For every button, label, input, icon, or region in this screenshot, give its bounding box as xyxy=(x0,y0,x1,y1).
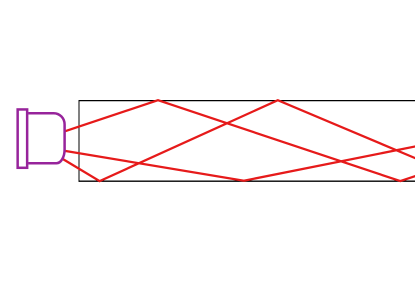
ray C (near bottom bounce then top bounce) xyxy=(63,100,415,181)
ray A (top bounce then far bottom bounce) xyxy=(65,100,415,181)
light guide bottom wall xyxy=(79,180,415,182)
LED body (D-shaped dome) xyxy=(28,113,64,163)
light guide left facet xyxy=(78,100,80,182)
LED flange (narrow rectangle) xyxy=(18,109,28,167)
ray B (shallow, mid bottom bounce) xyxy=(65,146,415,180)
light guide top wall xyxy=(79,100,415,102)
